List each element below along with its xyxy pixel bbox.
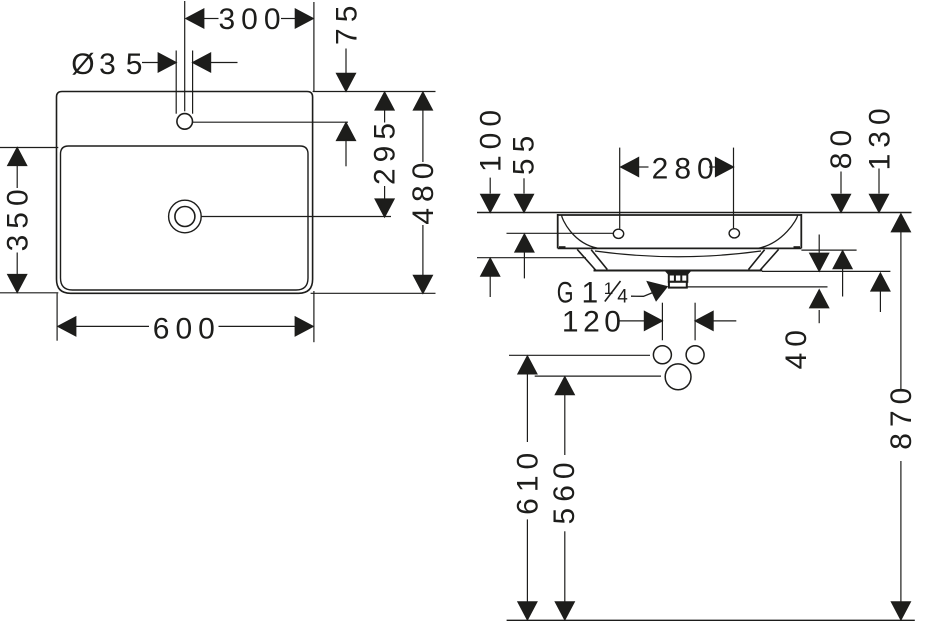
label 120 (562, 306, 626, 339)
svg-text:1: 1 (604, 279, 613, 298)
svg-text:295: 295 (369, 117, 402, 185)
300 right extension line (313, 2, 315, 92)
bowl underside curve (595, 251, 761, 257)
label 480 (407, 157, 440, 225)
55 lower reference line (507, 232, 614, 234)
600 right extension line (313, 291, 315, 342)
wall reference line (477, 212, 912, 214)
drain fitting nut (669, 282, 687, 288)
dimension 280 (621, 158, 734, 177)
washbasin inner rim (top view) (61, 146, 309, 290)
svg-text:G: G (557, 275, 574, 309)
label 40 (780, 324, 813, 369)
label G 1 1/4 (557, 275, 629, 310)
dimension 610 (518, 356, 537, 620)
faucet hole right tangent extension line (192, 51, 194, 114)
label 560 (548, 456, 581, 524)
label Ø35 (71, 48, 142, 81)
bowl bottom edge (594, 270, 763, 272)
left mounting bracket (577, 249, 607, 270)
right fixing hole (729, 229, 739, 238)
label 55 (508, 130, 541, 175)
100 lower reference line (477, 257, 586, 259)
svg-text:480: 480 (407, 157, 440, 225)
svg-text:300: 300 (218, 3, 286, 36)
supply hole left (653, 346, 671, 364)
svg-text:120: 120 (562, 306, 626, 339)
label 280 (652, 152, 720, 185)
label 870 (885, 382, 918, 450)
label 130 (863, 102, 896, 170)
dimension Ø35 (142, 53, 238, 72)
basin top edge extension right (313, 91, 436, 93)
G 1 1/4 leader arrow (646, 281, 668, 302)
rim bottom reference line A (801, 249, 856, 251)
faucet hole centre extension line (184, 1, 186, 111)
svg-text:80: 80 (825, 124, 858, 169)
drain inner circle (175, 207, 195, 227)
svg-text:Ø: Ø (71, 48, 94, 81)
left fixing hole (613, 229, 623, 238)
svg-text:350: 350 (2, 183, 35, 251)
svg-text:600: 600 (153, 313, 221, 346)
drain side reference line (201, 216, 391, 218)
dimension 870 (891, 214, 910, 620)
label 100 (475, 104, 508, 172)
svg-text:130: 130 (863, 102, 896, 170)
label 600 (153, 313, 221, 346)
right mounting bracket (749, 249, 779, 270)
label 610 (511, 447, 544, 515)
G 1 1/4 fraction slash (605, 281, 621, 302)
bowl bottom reference line B (762, 270, 890, 272)
dimension 295 (375, 92, 394, 217)
dimension 80 (832, 172, 853, 297)
label 295 (369, 117, 402, 185)
label 300 (218, 3, 286, 36)
label 350 (2, 183, 35, 251)
svg-text:40: 40 (780, 324, 813, 369)
left hole extension line (619, 148, 621, 229)
drain fitting thread (669, 275, 688, 282)
svg-text:55: 55 (508, 130, 541, 175)
svg-text:870: 870 (885, 382, 918, 450)
svg-text:5: 5 (126, 48, 143, 81)
svg-text:100: 100 (475, 104, 508, 172)
dimension 40 (810, 235, 829, 324)
floor line (507, 619, 915, 621)
bowl inner silhouette (562, 215, 798, 249)
drain fitting flange (665, 271, 691, 274)
label 80 (825, 124, 858, 169)
left corner mark (559, 246, 566, 248)
right corner mark (794, 246, 801, 248)
dimension 120 (620, 303, 737, 341)
basin bottom edge extension right (311, 292, 436, 294)
350 bottom reference line (0, 292, 58, 294)
svg-text:1: 1 (582, 277, 599, 310)
dimension 600 (58, 317, 313, 336)
dimension 350 (8, 148, 27, 293)
dimension 300 (186, 9, 313, 28)
svg-text:4: 4 (617, 286, 628, 307)
G 1 1/4 leader line (631, 293, 653, 297)
dimension 130 (870, 169, 890, 313)
dimension 100 (481, 178, 500, 297)
dimension 480 (413, 92, 432, 293)
right hole extension line (733, 148, 735, 229)
label 75 (330, 0, 363, 45)
faucet hole side reference line (193, 121, 348, 123)
560 upper reference line (535, 375, 661, 377)
basin rim box (front view) (558, 214, 802, 248)
waste hole (665, 364, 691, 390)
supply hole right (686, 346, 704, 364)
faucet hole left tangent extension line (175, 51, 177, 114)
faucet hole (177, 114, 193, 130)
dimension 560 (555, 377, 574, 620)
svg-text:560: 560 (548, 456, 581, 524)
svg-text:610: 610 (511, 447, 544, 515)
svg-text:280: 280 (652, 152, 720, 185)
drain bottom reference line C (687, 286, 828, 288)
drain outer circle (169, 200, 202, 233)
dimension 55 (515, 178, 534, 278)
svg-text:3: 3 (99, 48, 116, 81)
610 upper reference line (509, 354, 650, 356)
600 left extension line (56, 293, 58, 340)
washbasin outer outline (top view) (57, 92, 313, 294)
dimension 75 (337, 49, 356, 167)
svg-text:75: 75 (330, 0, 363, 45)
350 top reference line (0, 147, 58, 149)
